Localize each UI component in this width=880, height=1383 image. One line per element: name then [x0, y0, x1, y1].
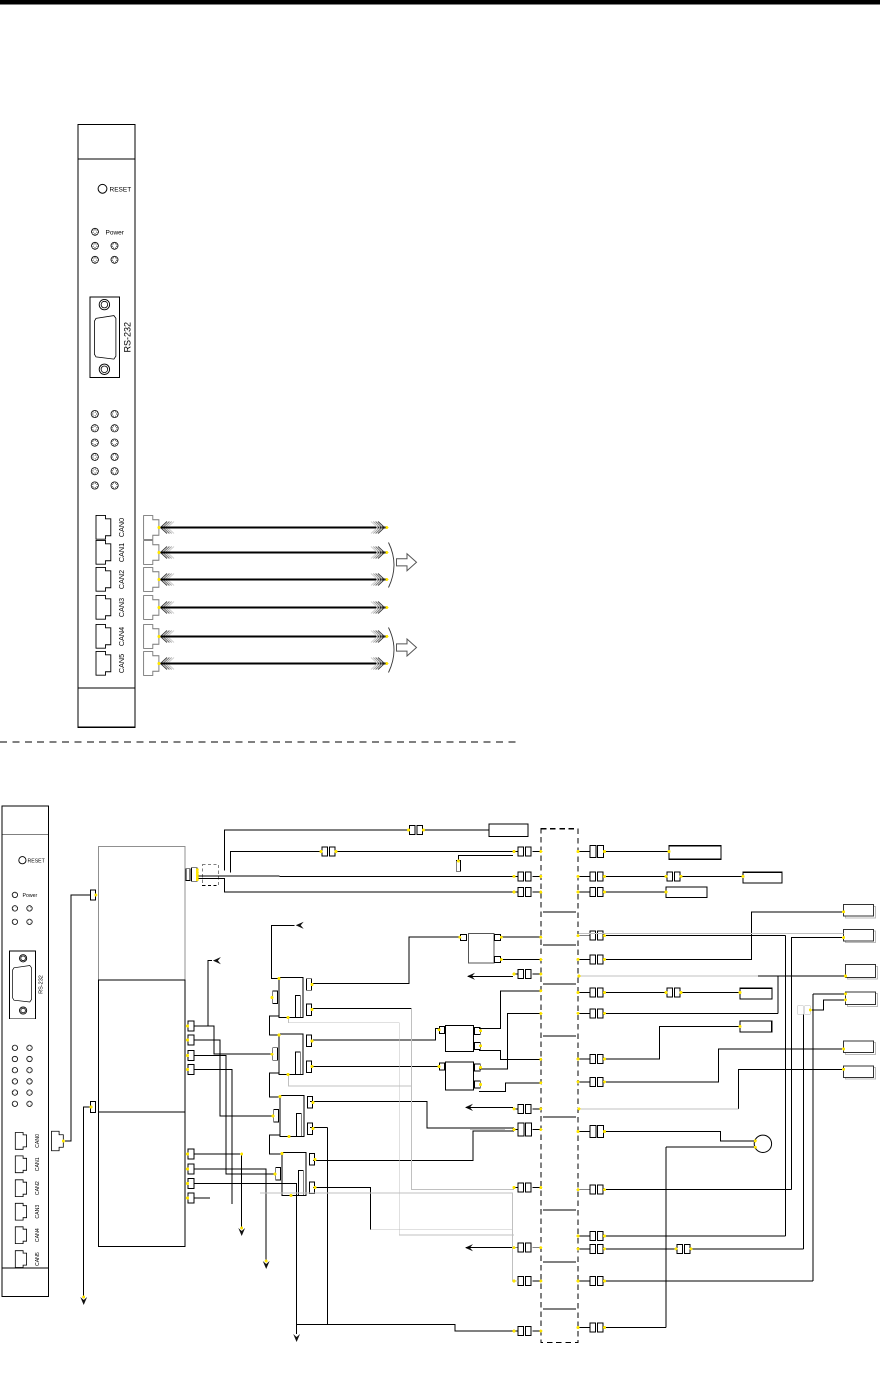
bus left connector pair y1108: [513, 1104, 541, 1113]
dashed separator line: [0, 741, 521, 743]
inline box m2: [743, 872, 782, 883]
svg-text:CAN5: CAN5: [35, 1252, 41, 1266]
relay K2: [273, 1034, 312, 1075]
CAN5 label: [117, 654, 126, 673]
wire pin4 down: [194, 1070, 232, 1204]
svg-text:CAN4: CAN4: [117, 627, 126, 646]
svg-text:RS-232: RS-232: [39, 975, 45, 994]
bus right connector pair y1131: [578, 1126, 603, 1138]
svg-text:CAN5: CAN5: [117, 654, 126, 673]
wire circle lower: [666, 1147, 755, 1327]
wire y1189: [605, 1189, 792, 1191]
grey route bottom: [260, 1193, 518, 1281]
CAN5 cable wire: [161, 658, 387, 670]
svg-text:Power: Power: [106, 229, 125, 236]
bus right connector pair y892: [578, 888, 603, 897]
bus right connector pair y851: [578, 846, 603, 858]
CAN0 jack on panel: [96, 515, 111, 539]
bus left connector pair y876: [513, 872, 541, 881]
CAN3 jack (schematic): [15, 1203, 26, 1220]
device box b5: [844, 1041, 876, 1054]
CAN4 cable wire: [161, 631, 387, 643]
panel bottom section divider: [78, 687, 135, 689]
bus partitions: [543, 912, 576, 1309]
wire U0 to bus y937: [501, 936, 541, 938]
RESET button (schematic): [19, 857, 46, 865]
bus left connector pair y1247: [513, 1243, 541, 1252]
Power LED: [92, 228, 125, 236]
board rectangle 3: [98, 1112, 184, 1246]
panel top section divider: [78, 158, 135, 160]
svg-text:Power: Power: [23, 893, 38, 899]
backplane bus (dashed): [541, 829, 578, 1343]
node circle: [754, 1135, 771, 1152]
wire relay2 to opto1: [313, 1029, 440, 1040]
grey route B: [289, 1008, 514, 1189]
CAN3 jack on panel: [96, 595, 111, 619]
bus left connector pair y1331: [513, 1327, 541, 1336]
device box b2: [844, 929, 876, 942]
CAN2 jack on panel: [96, 567, 111, 591]
wire junction dots: [62, 526, 847, 1333]
cable plug on CAN0 (schematic): [52, 1131, 64, 1151]
bus right connector pair y959: [578, 955, 603, 964]
svg-text:CAN2: CAN2: [117, 570, 126, 589]
wire bus-m1: [605, 851, 670, 853]
wire board2 pin to down arrow: [80, 1107, 90, 1305]
grey pair g1: [798, 1006, 811, 1015]
opto U0: [461, 934, 501, 964]
wire y1236: [605, 1235, 786, 1237]
svg-text:RESET: RESET: [110, 187, 132, 194]
CAN5 jack (schematic): [15, 1251, 26, 1268]
wire b2 drop: [792, 938, 844, 1190]
svg-text:CAN2: CAN2: [35, 1181, 41, 1195]
wire y992 to m4: [605, 988, 741, 997]
CAN2 cable wire: [161, 574, 387, 586]
wire y935 to vertical: [605, 936, 786, 1236]
grey wire y1108 right: [579, 1108, 738, 1110]
ribbon cable connector: [186, 865, 219, 886]
svg-text:CAN3: CAN3: [35, 1205, 41, 1219]
wire opto2 top to bus y1013: [479, 1014, 541, 1070]
vertical x803: [803, 1014, 805, 1249]
bus right connector pair y1236: [578, 1232, 603, 1241]
wire bus-m3: [605, 891, 667, 893]
CAN4 jack (schematic): [15, 1227, 26, 1244]
vertical x327: [327, 1128, 329, 1325]
CAN0 label (schematic): [35, 1134, 41, 1148]
wire y1248: [605, 1244, 804, 1253]
relay K3: [274, 1096, 313, 1137]
bus left connector pair y851: [513, 847, 541, 856]
device box b3: [846, 965, 878, 980]
CAN0 jack (schematic): [15, 1133, 26, 1150]
bus left connector pair y1129: [513, 1123, 541, 1136]
wire run y851: [231, 847, 514, 873]
svg-text:CAN1: CAN1: [117, 543, 126, 562]
svg-text:CAN1: CAN1: [35, 1157, 41, 1171]
wire arrow ref4: [465, 1244, 513, 1251]
wire arrow ref3: [465, 1104, 513, 1111]
branch block arrow 1: [397, 554, 417, 571]
CAN3 label (schematic): [35, 1205, 41, 1219]
wire arrow ref0: [467, 973, 513, 980]
CAN3 cable wire: [161, 602, 387, 614]
wire relay2 to opto2: [313, 1066, 440, 1068]
board rectangle 2: [98, 980, 184, 1112]
wire pin3 to bottom arrow: [194, 1184, 300, 1343]
stub pin y860: [456, 855, 513, 871]
wire relay2-relay3 link: [270, 1073, 281, 1097]
inline box m3: [666, 887, 707, 897]
wire run y876: [197, 875, 513, 877]
CAN1 cable wire: [161, 547, 387, 559]
grey wire y933 to b2: [579, 933, 844, 935]
junction dot b5: [0, 0, 1, 1]
CAN5 jack on panel: [96, 651, 111, 675]
wire relay3 bottom: [310, 1127, 328, 1129]
bus left connector pair y1281: [513, 1277, 541, 1286]
wire bus-m2: [605, 872, 744, 881]
wire y1281: [605, 1280, 813, 1282]
wire opto1 top to bus y990: [479, 991, 541, 1029]
inline box m4: [740, 988, 772, 999]
wire pin-relay3: [194, 1040, 274, 1116]
page top border bar: [0, 0, 880, 4]
wire g1 to b4: [810, 1000, 845, 1010]
wire y1013 to vertical: [605, 976, 779, 1013]
wire relay1-relay2 link: [270, 1016, 280, 1035]
relay K1: [273, 978, 312, 1018]
wire run y830: [224, 826, 489, 871]
wire relay4 top: [313, 1131, 514, 1160]
CAN5 label (schematic): [35, 1252, 41, 1266]
board3 right pins: [188, 1149, 194, 1203]
CAN4 label: [117, 627, 126, 646]
CAN3 cable plug: [144, 596, 159, 620]
grey route A: [289, 1018, 514, 1236]
CAN0 cable plug: [144, 516, 159, 540]
device box b6: [844, 1066, 876, 1079]
CAN1 label (schematic): [35, 1157, 41, 1171]
opto U2: [440, 1062, 481, 1090]
wire pin-down arrow2: [194, 1169, 270, 1269]
wire opto2 bottom to bus y1082: [479, 1083, 541, 1092]
svg-text:CAN0: CAN0: [117, 518, 126, 537]
wire y1327: [605, 1327, 667, 1329]
CAN4 cable plug: [144, 625, 159, 649]
wire relay1 to U0: [313, 937, 461, 983]
bus left connector pair y892: [513, 888, 541, 897]
opto U1: [440, 1025, 481, 1051]
bus left connector pair y1187: [513, 1183, 541, 1192]
device box b4: [846, 992, 878, 1007]
wire relay3-relay4 link: [270, 1135, 283, 1154]
svg-text:CAN4: CAN4: [35, 1228, 41, 1242]
bus right connector pair y1281: [578, 1277, 603, 1286]
grey stub y1129: [470, 1129, 505, 1131]
wire bottom L: [297, 1325, 513, 1331]
svg-text:RESET: RESET: [28, 858, 46, 864]
CAN1 jack (schematic): [15, 1156, 26, 1173]
CAN2 label (schematic): [35, 1181, 41, 1195]
bus left connector pair y974: [513, 970, 541, 979]
CAN2 cable plug: [144, 568, 159, 592]
panel divider bottom (schematic): [2, 1267, 49, 1269]
board1 left pin: [91, 890, 96, 900]
bus right connector pair y992: [578, 988, 603, 997]
grey wire y976: [579, 975, 846, 977]
CAN1 cable plug: [144, 541, 159, 565]
cable bundle arc 2: [389, 628, 395, 673]
panel divider top (schematic): [2, 833, 49, 835]
Power LED (schematic): [12, 892, 37, 899]
bus right connector pair y1013: [578, 1009, 603, 1018]
CAN4 jack on panel: [96, 624, 111, 648]
CAN1 jack on panel: [96, 540, 111, 564]
wire opto1 bottom to bus y1059: [479, 1050, 541, 1059]
LED array 6x2: [91, 410, 118, 489]
wire y959 to b1: [605, 912, 844, 960]
wire pin stub4: [194, 1197, 210, 1199]
inline box m1: [669, 846, 721, 860]
board rectangle 1: [98, 847, 184, 981]
device box b1: [844, 905, 876, 919]
board2 right pins: [188, 1021, 194, 1075]
wire pin-relay4: [194, 1056, 276, 1174]
front panel outline (schematic view): [2, 806, 49, 1297]
svg-text:CAN0: CAN0: [35, 1134, 41, 1148]
inline box y830: [489, 824, 528, 837]
cable bundle arc 1: [389, 543, 395, 588]
board2 left pin: [91, 1102, 96, 1113]
bus right connector pair y1059: [578, 1055, 603, 1064]
bus right connector pair y935: [578, 931, 603, 940]
relay K4: [276, 1153, 315, 1196]
bus right connector pair y1327: [578, 1323, 603, 1332]
wire relay1 bottom to grey junction: [313, 1008, 412, 1010]
wire b4 upper: [813, 993, 846, 995]
CAN0 label: [117, 518, 126, 537]
bus right connector pair y1248: [578, 1244, 603, 1253]
branch block arrow 2: [397, 639, 417, 656]
inline box m5: [740, 1021, 772, 1032]
RS-232 DB9 connector (schematic): [9, 951, 44, 1019]
wire U0 to bus y959: [501, 959, 541, 961]
wire y1131 to node circle: [606, 1132, 755, 1141]
CAN0 cable wire: [161, 522, 387, 534]
CAN3 label: [117, 598, 126, 617]
CAN4 label (schematic): [35, 1228, 41, 1242]
vertical x812: [812, 994, 814, 1281]
CAN2 label: [117, 570, 126, 589]
wire plug to board1: [63, 895, 90, 1141]
status LEDs 2x2 (schematic): [12, 906, 32, 925]
wire arrow ref1: [272, 922, 304, 979]
wire run y892: [197, 879, 513, 892]
RS-232 DB9 connector: [90, 297, 133, 378]
wire pin-relay2: [194, 1026, 273, 1054]
svg-text:RS-232: RS-232: [123, 322, 133, 353]
svg-text:CAN3: CAN3: [117, 598, 126, 617]
wire y1081 to b5: [605, 1049, 844, 1082]
wire pin-down arrow1: [194, 1154, 245, 1236]
bus right connector pair y876: [578, 872, 603, 881]
wire relay4 bottom: [313, 1188, 513, 1230]
front panel outline (top view): [78, 124, 135, 727]
bus right connector pair y1189: [578, 1185, 603, 1194]
CAN2 jack (schematic): [15, 1180, 26, 1197]
wire relay3 top: [310, 1102, 514, 1128]
wire b6: [738, 1069, 843, 1109]
wire arrow ref2: [208, 957, 221, 1026]
status LEDs 2x2: [92, 242, 119, 263]
CAN5 cable plug: [144, 652, 159, 676]
RESET button: [98, 184, 131, 193]
wire y1059 to m5: [605, 1026, 741, 1059]
LED array 6x2 (schematic): [12, 1045, 32, 1106]
bus right connector pair y1081: [578, 1077, 603, 1086]
CAN1 label: [117, 543, 126, 562]
